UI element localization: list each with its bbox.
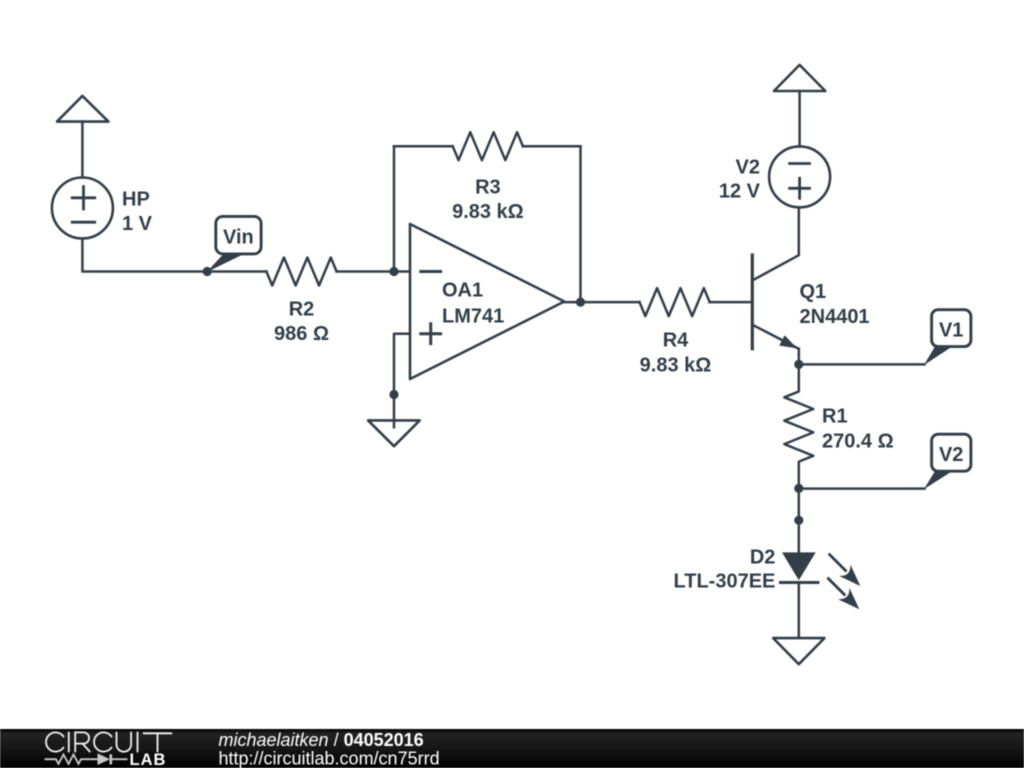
logo resistor-diode glyph bbox=[45, 754, 128, 764]
svg-text:LTL-307EE: LTL-307EE bbox=[674, 571, 776, 593]
wire op-amp output bbox=[564, 301, 639, 304]
wire to node V2 bbox=[799, 487, 925, 490]
svg-text:9.83 kΩ: 9.83 kΩ bbox=[640, 355, 712, 377]
LED light arrow 1 head bbox=[839, 565, 860, 587]
resistor R4 bbox=[640, 288, 710, 316]
logo CIRCUIT wordmark bbox=[46, 732, 171, 751]
transistor Q1 base bar bbox=[751, 255, 754, 349]
svg-text:12 V: 12 V bbox=[719, 181, 761, 203]
svg-text:OA1: OA1 bbox=[442, 280, 483, 302]
ground (LED) bbox=[773, 638, 824, 664]
resistor R1 (vertical) bbox=[784, 364, 813, 488]
ground stub wire bbox=[393, 395, 396, 428]
LED light arrow 2 shaft bbox=[828, 579, 844, 595]
LED light arrow 2 head bbox=[838, 588, 859, 610]
svg-text:Q1: Q1 bbox=[800, 281, 827, 303]
wire flag to V2 bbox=[798, 91, 801, 146]
svg-text:Vin: Vin bbox=[223, 226, 254, 248]
minus mark of HP bbox=[72, 221, 94, 224]
svg-text:R4: R4 bbox=[663, 330, 689, 352]
svg-text:V1: V1 bbox=[939, 319, 963, 341]
op-amp plus marker bbox=[421, 324, 441, 344]
power flag VCC (V2) bbox=[774, 65, 825, 91]
svg-text:LAB: LAB bbox=[130, 751, 167, 768]
op-amp OA1 triangle bbox=[410, 224, 564, 379]
wire R1 to LED bbox=[798, 488, 801, 552]
wire feedback top left bbox=[394, 145, 453, 148]
node V1 flag tail bbox=[924, 347, 952, 366]
svg-text:V2: V2 bbox=[736, 156, 760, 178]
node V1 flag box bbox=[932, 310, 971, 347]
svg-text:V2: V2 bbox=[939, 444, 963, 466]
node V2 flag tail bbox=[924, 471, 952, 489]
svg-text:1 V: 1 V bbox=[122, 213, 153, 235]
wire R2 to op-amp input bbox=[337, 270, 410, 273]
transistor Q1 collector bbox=[754, 207, 799, 279]
wire feedback left vertical bbox=[393, 146, 396, 271]
svg-text:HP: HP bbox=[122, 188, 150, 210]
node V2 flag box bbox=[932, 434, 971, 471]
wire Vin to R2 bbox=[207, 270, 266, 273]
node Vin flag box bbox=[216, 216, 261, 254]
junction dot at output bbox=[576, 298, 585, 307]
power flag VCC (top-left) bbox=[57, 96, 108, 122]
logo letter T bbox=[144, 733, 172, 751]
voltage source V2 (circle) bbox=[769, 146, 830, 207]
wire non-inverting input stub bbox=[394, 334, 410, 395]
svg-text:986 Ω: 986 Ω bbox=[274, 323, 329, 345]
logo diode triangle bbox=[98, 753, 111, 765]
wire bbox=[81, 122, 84, 178]
plus mark of V2 bbox=[790, 178, 810, 198]
wire from HP to node Vin bbox=[82, 239, 207, 272]
junction dot emitter node bbox=[794, 360, 803, 369]
minus mark of V2 bbox=[790, 162, 810, 165]
node Vin junction dot bbox=[203, 267, 212, 276]
wire feedback right vertical bbox=[579, 146, 582, 302]
svg-text:2N4401: 2N4401 bbox=[800, 306, 870, 328]
logo letter R bbox=[75, 732, 90, 751]
svg-text:R1: R1 bbox=[822, 405, 848, 427]
wire emitter down bbox=[798, 349, 801, 365]
wire feedback top right bbox=[523, 145, 581, 148]
LED D2 triangle bbox=[782, 552, 816, 580]
LED light arrow 1 shaft bbox=[830, 555, 846, 571]
svg-text:270.4 Ω: 270.4 Ω bbox=[822, 430, 894, 452]
LED D2 cathode bar bbox=[781, 581, 818, 584]
junction dot V2 node bbox=[794, 484, 803, 493]
logo letter I (2nd) bbox=[137, 732, 139, 751]
logo letter U bbox=[117, 732, 132, 751]
resistor R2 bbox=[266, 258, 336, 286]
svg-text:michaelaitken / 04052016: michaelaitken / 04052016 bbox=[219, 730, 424, 750]
svg-text:LM741: LM741 bbox=[442, 306, 504, 328]
svg-text:http://circuitlab.com/cn75rrd: http://circuitlab.com/cn75rrd bbox=[219, 748, 440, 768]
op-amp minus marker bbox=[421, 270, 441, 273]
svg-text:R2: R2 bbox=[289, 299, 315, 321]
ground (op-amp) bbox=[368, 420, 420, 446]
logo letter I bbox=[68, 732, 70, 751]
svg-text:D2: D2 bbox=[750, 547, 776, 569]
logo letter C bbox=[46, 732, 63, 751]
logo letter C (2nd) bbox=[94, 732, 111, 751]
node Vin flag tail bbox=[207, 254, 245, 272]
wire LED to ground bbox=[798, 583, 801, 645]
transistor Q1 emitter arrowhead bbox=[779, 335, 797, 348]
resistor R3 bbox=[453, 132, 523, 160]
svg-text:9.83 kΩ: 9.83 kΩ bbox=[452, 201, 524, 223]
junction at inverting input bbox=[389, 267, 398, 276]
wire R4 to base bbox=[710, 301, 753, 304]
wire to node V1 bbox=[799, 363, 925, 366]
junction dot above ground bbox=[389, 390, 398, 399]
svg-text:R3: R3 bbox=[475, 177, 501, 199]
junction dot above LED bbox=[794, 516, 803, 525]
transistor Q1 emitter bbox=[754, 325, 799, 349]
voltage source HP (circle) bbox=[52, 178, 113, 239]
plus mark of HP bbox=[72, 187, 94, 209]
